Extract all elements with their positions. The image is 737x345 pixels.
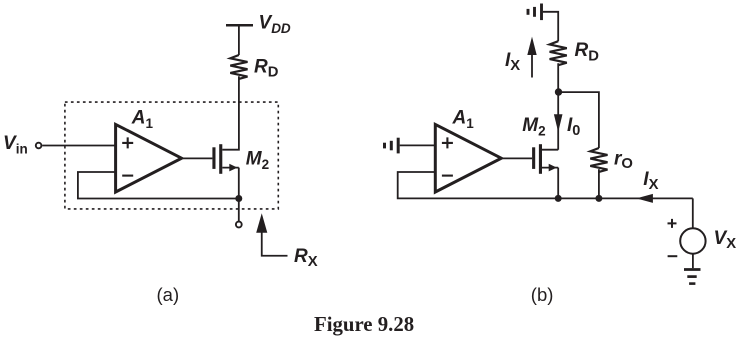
label RX	[294, 246, 318, 270]
label IX top	[505, 50, 520, 74]
svg-text:VDD: VDD	[259, 12, 291, 36]
ground below VX	[684, 270, 701, 284]
svg-text:(b): (b)	[531, 284, 554, 305]
wire RD to M2 drain (b)	[557, 63, 559, 150]
label A1 (a)	[131, 107, 154, 131]
dashed box (a)	[65, 102, 278, 209]
svg-text:Vin: Vin	[3, 133, 28, 157]
node rO junction (b)	[595, 195, 602, 202]
label RD (a)	[254, 56, 279, 80]
caption Figure 9.28	[314, 313, 414, 336]
resistor RD (a)	[230, 55, 247, 79]
svg-text:IX: IX	[643, 169, 658, 193]
svg-text:M2: M2	[522, 115, 545, 139]
power VDD rail bar (a)	[226, 24, 253, 27]
svg-text:RD: RD	[575, 40, 600, 64]
resistor RD (b)	[550, 41, 567, 65]
arrow IX up beside RD	[527, 37, 536, 78]
svg-text:Figure 9.28: Figure 9.28	[314, 313, 414, 336]
wire ground to RD (b)	[543, 12, 558, 41]
wire feedback A1 minus and bottom rail (b)	[398, 172, 693, 198]
node drain junction (b)	[555, 88, 562, 95]
ground sideways at RD top (b)	[528, 4, 542, 21]
op-amp A1 (a)	[116, 124, 182, 192]
svg-text:(a): (a)	[157, 284, 180, 305]
arrow I0 on drain wire	[554, 114, 563, 132]
svg-text:RD: RD	[254, 56, 279, 80]
input terminal Vin	[36, 143, 42, 149]
label VX	[714, 228, 737, 252]
wire M2 source to output node (a)	[238, 168, 240, 199]
wire ground to A1 plus (b)	[400, 144, 436, 146]
node junction (a)	[235, 195, 242, 202]
transistor M2 (b)	[532, 144, 558, 174]
label RD (b)	[575, 40, 600, 64]
label (a)	[157, 284, 180, 305]
wire corner to VX source	[692, 198, 694, 228]
wire A1 output to M2 gate (a)	[183, 157, 212, 159]
terminal RX probe circle	[236, 222, 242, 228]
wire node to RX probe terminal	[238, 199, 240, 222]
svg-text:rO: rO	[614, 148, 633, 172]
wire Vin to A1 plus input	[42, 145, 115, 147]
wire A1 output to M2 gate (b)	[503, 157, 532, 159]
svg-text:M2: M2	[246, 149, 269, 173]
svg-text:VX: VX	[714, 228, 737, 252]
wire RD to M2 drain (a)	[222, 76, 239, 150]
arrow IX on bottom rail	[636, 194, 653, 203]
label minus VX	[668, 255, 678, 257]
svg-text:RX: RX	[294, 246, 318, 270]
svg-text:I0: I0	[567, 115, 580, 139]
wire node to rO top	[559, 92, 599, 148]
svg-text:A1: A1	[452, 107, 475, 131]
label IX bottom	[643, 169, 658, 193]
label M2 (b)	[522, 115, 545, 139]
transistor M2 (a)	[212, 144, 238, 174]
label rO	[614, 148, 633, 172]
arrow RX pointer	[256, 213, 287, 255]
ground sideways at A1 plus input (b)	[385, 138, 399, 154]
op-amp A1 (b)	[435, 124, 501, 192]
wire VX to ground	[692, 254, 694, 269]
label plus VX	[668, 219, 677, 228]
source VX circle	[680, 228, 705, 253]
node M2 source junction (b)	[555, 195, 562, 202]
label VDD	[259, 12, 291, 36]
label I0	[567, 115, 580, 139]
label A1 (b)	[452, 107, 475, 131]
svg-text:IX: IX	[505, 50, 520, 74]
wire VDD to RD (a)	[238, 25, 240, 55]
svg-text:A1: A1	[131, 107, 154, 131]
label (b)	[531, 284, 554, 305]
resistor rO	[590, 148, 607, 172]
label Vin	[3, 133, 28, 157]
wire feedback A1 minus input (a)	[78, 172, 239, 199]
wire M2 source to bottom node (b)	[557, 168, 559, 199]
wire rO to bottom node	[598, 169, 600, 198]
label M2 (a)	[246, 149, 269, 173]
